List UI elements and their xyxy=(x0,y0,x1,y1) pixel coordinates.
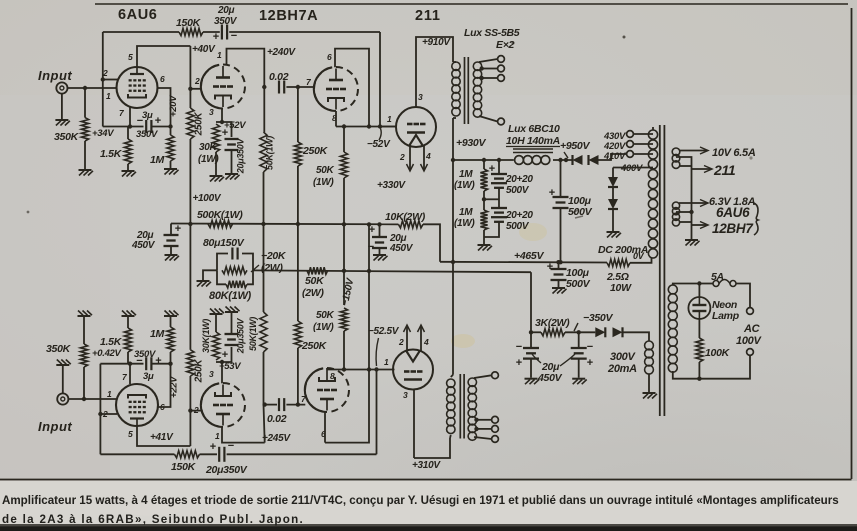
junction B+ node xyxy=(451,158,455,162)
svg-text:−: − xyxy=(587,341,593,353)
svg-text:Lamp: Lamp xyxy=(712,310,740,322)
fil2 arrow2 xyxy=(700,222,708,229)
wire PT prim top xyxy=(673,284,700,286)
svg-text:+: + xyxy=(547,261,553,273)
label +310V xyxy=(412,460,441,471)
wire fil1 bot2 xyxy=(692,168,712,170)
wire rail R3 xyxy=(440,261,607,264)
ground chain ground xyxy=(478,245,493,251)
wire x263 mid xyxy=(263,172,265,224)
junction R2 x369 xyxy=(367,222,371,226)
label pin2 211b xyxy=(398,337,404,347)
tick 950 xyxy=(564,152,568,158)
svg-text:20+20: 20+20 xyxy=(505,210,533,221)
svg-text:Input: Input xyxy=(38,419,72,434)
ground x379 cap ground xyxy=(373,255,388,261)
211b filament leads xyxy=(404,325,425,351)
label 10W xyxy=(610,282,632,294)
wire 1.5K b to gnd xyxy=(127,317,129,328)
svg-text:AC: AC xyxy=(743,323,761,335)
junction cath/1M xyxy=(168,124,172,128)
ground J1 shield xyxy=(55,120,70,126)
resistor R 100K xyxy=(696,338,703,362)
svg-text:3: 3 xyxy=(209,107,214,117)
svg-text:50K: 50K xyxy=(305,275,325,287)
arrow bias cap a xyxy=(532,354,541,363)
OPT2 core xyxy=(460,374,464,439)
junction input/350K xyxy=(83,86,87,90)
label 6.3V 1.8A xyxy=(709,196,756,208)
wire 350K b to gnd xyxy=(83,317,85,344)
resistor R 350K (top) xyxy=(81,118,88,141)
wire bias cap2 gnd xyxy=(578,359,580,378)
svg-text:+910V: +910V xyxy=(422,37,451,48)
svg-text:500V: 500V xyxy=(506,185,530,196)
wire box left low xyxy=(217,270,226,284)
junction g2/feedback b xyxy=(98,412,102,416)
junction OPT2 tap3 dot xyxy=(474,427,478,431)
wire V1b cathode stub xyxy=(129,364,131,384)
wire x190 long2 xyxy=(189,224,191,350)
wire R2 left jog xyxy=(170,224,172,235)
label +22V rot b xyxy=(169,376,180,398)
svg-text:+: + xyxy=(155,115,161,127)
resistor R -20K 2W xyxy=(222,267,247,274)
svg-text:8: 8 xyxy=(330,371,335,381)
wire B+ rail b xyxy=(553,159,573,161)
label 150K fb b xyxy=(171,461,197,473)
wire bias cap1 gnd xyxy=(530,359,532,378)
svg-text:1: 1 xyxy=(387,114,392,124)
label 20u350V fb b xyxy=(205,464,248,476)
label 1.5K (top) xyxy=(100,148,123,160)
wire box right low xyxy=(247,270,253,284)
resistor R 50K 1W (x263 top) xyxy=(260,132,267,172)
label pin1 V1a xyxy=(106,91,111,101)
label 100K xyxy=(705,347,731,359)
wire feedback top line a xyxy=(103,31,179,33)
label +465V xyxy=(514,250,544,262)
label bc1 plus xyxy=(516,357,522,369)
svg-text:80K(1W): 80K(1W) xyxy=(209,290,252,302)
diode D1 rect xyxy=(573,155,583,165)
svg-text:1M: 1M xyxy=(459,207,473,218)
svg-text:E×2: E×2 xyxy=(496,39,515,51)
svg-text:+20V: +20V xyxy=(168,95,179,117)
resistor R 1M (bottom) xyxy=(167,327,174,352)
label 1M (bottom) xyxy=(150,328,165,340)
label 10H 140mA xyxy=(506,135,560,147)
wire tap400 wire xyxy=(613,167,653,169)
wire fuse to term xyxy=(736,284,750,308)
label 0.02 bottom xyxy=(267,413,287,425)
wire OPT1 tap1 xyxy=(479,59,498,62)
resistor R 80K 1W xyxy=(226,281,247,288)
svg-text:10K(2W): 10K(2W) xyxy=(385,211,426,223)
label 400V xyxy=(620,163,643,174)
capacitor C 3u 350V (top) xyxy=(146,120,151,133)
resistor R 1.5K (bottom) xyxy=(124,328,131,352)
terminal tap 430V xyxy=(627,131,634,138)
label (2W) -20K xyxy=(261,262,283,274)
junction fb node bottom xyxy=(374,367,378,371)
svg-text:3: 3 xyxy=(209,369,214,379)
winding OPT1 primary xyxy=(452,62,460,116)
label (2W) 50K xyxy=(302,287,324,299)
wire V1b cathode line xyxy=(100,363,143,365)
svg-text:+950V: +950V xyxy=(560,140,590,152)
capacitor C 20+20 500V (upper) xyxy=(491,174,507,188)
svg-text:+245V: +245V xyxy=(262,433,291,444)
label 100V ac xyxy=(736,335,762,347)
label 500V u xyxy=(506,185,530,196)
label 350V fb xyxy=(214,16,238,27)
label pin6 V3a xyxy=(327,52,332,62)
wire fil2 top xyxy=(679,202,707,204)
svg-text:+34V: +34V xyxy=(92,128,114,139)
junction 100u node xyxy=(558,158,562,162)
label pin7 V3b xyxy=(301,394,307,404)
capacitor C 100u 500V (upper) xyxy=(553,197,569,208)
label 410V xyxy=(603,151,626,162)
terminal AC term 2 xyxy=(747,349,754,356)
label pin3 V2b xyxy=(209,369,214,379)
wire V2a grid xyxy=(190,88,201,90)
wire OPT2 plate line xyxy=(414,438,450,458)
label 450V rail left xyxy=(131,240,156,251)
wire couple line top xyxy=(286,86,313,88)
wire mid line M xyxy=(253,270,531,272)
junction M x369 xyxy=(367,269,371,273)
tube V1a 6AU6 xyxy=(117,67,158,108)
junction x344 node bottom xyxy=(342,367,346,371)
fil1 arrow xyxy=(700,147,708,154)
capacitor C 20u 350V feedback (top) xyxy=(222,25,227,40)
wire 350K to ground xyxy=(84,141,86,169)
capacitor C 20u 350V cathode (top) xyxy=(225,139,239,150)
wire V3a gridleak top xyxy=(297,87,299,142)
svg-text:450V: 450V xyxy=(131,240,156,251)
resistor R 1M 1W (lower) xyxy=(480,210,487,230)
svg-text:12BH7: 12BH7 xyxy=(712,221,754,236)
wire bias cap1 lead xyxy=(530,332,532,347)
wire neon top lead xyxy=(698,284,700,298)
wire V2b cathode stub xyxy=(221,362,223,383)
label -350V xyxy=(583,312,613,324)
label 20+20 u xyxy=(505,174,533,185)
label -150V rot xyxy=(340,276,357,307)
wire 1M chain bot xyxy=(483,230,485,244)
resistor R 50K 1W (top follower) xyxy=(340,152,347,178)
svg-text:10W: 10W xyxy=(610,282,632,294)
wire cap chain top xyxy=(498,160,500,173)
wire 100u lower lead xyxy=(558,262,560,269)
svg-text:150K: 150K xyxy=(171,461,197,473)
ground cath cap ground xyxy=(225,174,240,180)
label +0.42V xyxy=(92,348,122,359)
svg-text:250K: 250K xyxy=(302,145,329,157)
wire bias seg2 xyxy=(565,331,595,333)
wire V2a cath to cap xyxy=(222,122,232,137)
terminal OPT1 t4 xyxy=(498,118,505,125)
label pin1 V1b xyxy=(107,389,112,399)
svg-text:+41V: +41V xyxy=(150,432,174,443)
wire V3b gridleak xyxy=(297,348,299,405)
wire V3a pin6 bridge xyxy=(335,49,369,127)
wire B+ rail c xyxy=(599,154,627,160)
diode D4 bias xyxy=(608,199,618,209)
resistor R 10K 2W (top rail) xyxy=(398,221,423,228)
junction cathode junction V1b xyxy=(128,362,132,366)
junction R2 x263 xyxy=(261,222,265,226)
label 1M (top) xyxy=(150,154,165,166)
wire AC term2 lead xyxy=(699,355,750,378)
svg-text:1M: 1M xyxy=(150,154,165,166)
label +330V xyxy=(377,180,406,191)
resistor R 150K feedback (bottom) xyxy=(175,451,200,458)
svg-text:20μ350V: 20μ350V xyxy=(205,464,248,476)
svg-text:Lux 6BC10: Lux 6BC10 xyxy=(508,123,560,135)
svg-text:350K: 350K xyxy=(54,131,80,143)
svg-text:+: + xyxy=(587,357,593,369)
terminal AC term 1 xyxy=(747,308,754,315)
junction OPT2 tap2 dot xyxy=(474,418,478,422)
label 0.02 top xyxy=(269,71,289,83)
wire fil2 ct xyxy=(676,211,692,213)
capacitor C 20u 450V bias 1 xyxy=(523,348,539,359)
junction 100K bottom node xyxy=(697,377,701,381)
wire 211t grid xyxy=(380,126,396,128)
capacitor C 20u 450V (x379) xyxy=(372,237,387,248)
winding PT filament 6.3V xyxy=(672,202,679,226)
neon lamp xyxy=(688,297,710,319)
wire 350K top lead xyxy=(84,88,86,118)
wire M to bias drop xyxy=(530,272,532,332)
winding PT HV winding xyxy=(648,130,657,258)
svg-text:250K: 250K xyxy=(301,340,328,352)
junction x263 0.02 join xyxy=(262,85,266,89)
svg-text:6AU6: 6AU6 xyxy=(716,205,750,220)
junction R3 x558 xyxy=(556,260,560,264)
wire V3b pin8 rise xyxy=(326,368,328,370)
label (1W) l xyxy=(454,218,475,229)
wire OPT2 tap4 xyxy=(474,437,492,439)
wire x344 mid seg xyxy=(343,178,345,271)
wire 1M to gnd xyxy=(170,161,172,168)
capacitor C 20u 350V cathode (bottom) xyxy=(225,334,239,345)
wire input line bottom xyxy=(68,398,116,400)
svg-text:20μ350V: 20μ350V xyxy=(236,318,246,355)
wire OPT1 tap4 xyxy=(479,116,498,122)
choke Lux 6BC10 xyxy=(513,149,553,164)
wire input line top xyxy=(68,87,117,89)
svg-text:(2W): (2W) xyxy=(261,262,283,274)
svg-text:Amplificateur 15 watts, à 4 ét: Amplificateur 15 watts, à 4 étages et tr… xyxy=(2,494,839,507)
svg-text:20μ: 20μ xyxy=(217,5,235,16)
capacitor C 3u 350V (bottom) xyxy=(146,357,151,370)
label railcap plus xyxy=(175,223,181,235)
terminal OPT2 t4 xyxy=(492,436,499,443)
label pin6 V1a xyxy=(160,74,165,84)
svg-text:500V: 500V xyxy=(506,221,530,232)
wire J2 to ground xyxy=(62,366,64,393)
terminal tap 420V xyxy=(627,141,634,148)
svg-text:+330V: +330V xyxy=(377,180,406,191)
tube U1 211 (top) xyxy=(396,107,436,147)
label pin8 V3a xyxy=(332,113,337,123)
frame bottom border xyxy=(0,479,852,481)
fil1 arrow2 xyxy=(704,166,712,173)
junction x344 node top xyxy=(342,124,346,128)
input jack J1 xyxy=(56,82,67,93)
svg-text:410V: 410V xyxy=(603,151,626,162)
label 420V xyxy=(603,141,626,152)
svg-text:1: 1 xyxy=(106,91,111,101)
diode D6 bias xyxy=(613,327,623,337)
wire 1M b lead xyxy=(170,352,172,364)
junction cath/1M b xyxy=(168,362,172,366)
label 50K(1W) rot top xyxy=(265,136,275,170)
label 10V 6.5A xyxy=(712,147,756,159)
fuse 5A xyxy=(713,280,736,287)
tick -350V xyxy=(574,323,578,331)
label pin1 V2b xyxy=(215,431,220,441)
svg-text:4: 4 xyxy=(423,337,429,347)
tube V3b 12BH7A xyxy=(305,368,349,412)
resistor R 1M (top) xyxy=(167,135,174,161)
wire 100u upper lead xyxy=(560,160,562,196)
terminal OPT1 t3 xyxy=(498,75,505,82)
ground 1M b ground xyxy=(164,311,179,317)
label 500K(1W) xyxy=(197,209,243,221)
svg-text:2: 2 xyxy=(194,76,200,86)
capacitor C 100u 500V (lower) xyxy=(551,269,567,280)
tube V3a 12BH7A xyxy=(314,67,358,111)
label +41V xyxy=(150,432,174,443)
wire V3b pin6 drop xyxy=(324,412,326,443)
ground 1M ground xyxy=(164,169,179,175)
resistor R 250K (V2a grid) xyxy=(187,108,194,139)
label 300V bias xyxy=(610,351,636,363)
wire J1 to ground xyxy=(61,94,63,119)
wire x344 bot seg xyxy=(343,331,345,370)
wire V1b pin6 stub xyxy=(158,364,171,407)
ground 350K b ground xyxy=(78,311,93,317)
wire bias winding gnd xyxy=(648,374,650,393)
svg-text:4: 4 xyxy=(425,151,431,161)
resistor R 150K feedback (top) xyxy=(179,28,203,35)
ground 1.5K ground xyxy=(122,171,137,177)
wire fb bottom line c xyxy=(227,453,377,455)
winding PT filament 10V xyxy=(672,148,680,168)
svg-text:50K: 50K xyxy=(316,165,335,176)
label 6AU6 fil xyxy=(716,205,750,220)
svg-text:+: + xyxy=(516,357,522,369)
PT HV top stub xyxy=(652,127,654,130)
wire V1b g2 stub xyxy=(100,413,117,415)
OPT1 primary stub top xyxy=(453,61,456,63)
label 20+20 l xyxy=(505,210,533,221)
label fb plus xyxy=(213,31,219,43)
label +930V xyxy=(456,137,486,149)
211t filament leads xyxy=(407,145,428,171)
label 100u plus xyxy=(549,187,555,199)
svg-text:50K: 50K xyxy=(316,310,335,321)
svg-text:6: 6 xyxy=(160,74,165,84)
ground splitter ground xyxy=(197,281,212,287)
svg-text:+240V: +240V xyxy=(267,47,296,58)
svg-text:80μ150V: 80μ150V xyxy=(203,237,245,249)
svg-text:6AU6: 6AU6 xyxy=(118,7,157,23)
svg-text:450V: 450V xyxy=(389,243,414,254)
winding OPT1 secondary xyxy=(473,62,481,117)
wire bias seg xyxy=(531,331,541,333)
OPT1 core xyxy=(465,57,469,124)
pointer -52V xyxy=(379,129,381,141)
terminal OPT1 t2 xyxy=(498,65,505,72)
svg-text:+: + xyxy=(549,187,555,199)
ground 30K ground xyxy=(210,176,225,182)
wire 100u upper bot xyxy=(560,208,562,262)
label cath cap b plus xyxy=(222,349,228,361)
label 50K 2W xyxy=(305,275,325,287)
label +950V xyxy=(560,140,590,152)
resistor R 3K 2W xyxy=(541,329,565,336)
svg-text:+: + xyxy=(155,355,161,367)
junction grid node V2a xyxy=(188,87,192,91)
wire chain cross xyxy=(484,198,499,200)
wire OPT1 tap3 xyxy=(482,77,498,79)
svg-text:−20K: −20K xyxy=(261,250,287,262)
label 2.5ohm xyxy=(606,271,629,283)
label 450V x379 xyxy=(389,243,414,254)
wire fil ct gnd lead xyxy=(691,238,693,241)
label AC xyxy=(743,323,761,335)
svg-text:+: + xyxy=(213,31,219,43)
wire D4 to gnd xyxy=(612,209,614,231)
svg-text:350V: 350V xyxy=(136,129,158,140)
label fb minus xyxy=(231,30,237,42)
label 3u minus xyxy=(137,115,143,127)
svg-text:5: 5 xyxy=(128,429,133,439)
winding PT primary xyxy=(668,285,677,372)
label bc2 minus xyxy=(587,341,593,353)
wire x344 top seg xyxy=(343,127,345,153)
junction pin6 node top xyxy=(367,124,371,128)
wire cap chain bot xyxy=(484,222,499,237)
junction R2 x379 xyxy=(377,222,381,226)
svg-text:+: + xyxy=(210,441,216,453)
svg-text:+: + xyxy=(222,127,228,139)
wire B+ rail a xyxy=(453,159,514,161)
wire 211b plate xyxy=(413,390,415,459)
diode D2 rect xyxy=(589,155,599,165)
wire x379 cap gnd lead xyxy=(379,248,381,254)
label pin2 211t xyxy=(399,152,405,162)
caption line 1 xyxy=(2,494,839,507)
junction OPT1 tap2 dot xyxy=(480,66,484,70)
svg-text:10H 140mA: 10H 140mA xyxy=(506,135,560,147)
wire 250K b to grid xyxy=(189,376,191,446)
wire OPT2 tap1 xyxy=(474,375,492,378)
ground 30K b ground xyxy=(210,309,225,315)
svg-text:211: 211 xyxy=(415,8,441,24)
wire cath cap b to gnd xyxy=(231,313,233,334)
label 150K fb xyxy=(176,17,202,29)
label 30K xyxy=(199,142,218,153)
ground 350K ground xyxy=(79,170,94,176)
junction chain mid xyxy=(482,197,486,201)
